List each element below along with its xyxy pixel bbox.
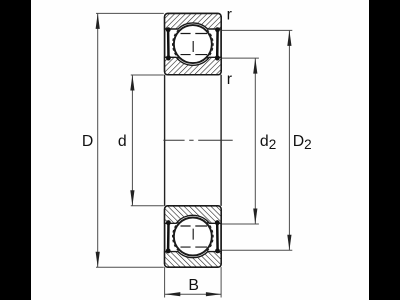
dimension d2 line [254,58,256,224]
dimension B extension left [164,267,166,297]
d2 arrow down [253,209,257,225]
dimension D extension top [96,12,164,14]
D arrow down [96,252,100,268]
dimension D2 line [288,30,290,250]
dimension D line [97,13,99,267]
bearing body bottom [165,206,222,267]
seal right (bottom) [216,223,219,251]
dimension B extension right [220,267,222,297]
ball (top) [174,25,212,63]
seal right (top) [216,30,219,58]
seal left (top) [167,30,170,58]
svg-text:d: d [118,133,127,150]
svg-text:r: r [227,71,232,88]
dimension D extension bottom [96,266,164,268]
ball centre marks (bottom) [181,226,208,247]
D2 arrow down [287,235,291,251]
dimension d extension top [131,74,164,76]
B arrow left [165,292,181,296]
right black pillar [369,0,400,300]
svg-text:B: B [188,277,199,294]
outer ring hatched (top) [165,14,222,30]
bore side face line right [220,75,222,206]
svg-text:r: r [227,7,232,24]
inner ring hatched (bottom) [165,206,222,223]
B arrow right [206,292,222,296]
bearing body top [165,14,222,75]
dimension D2 extension top [222,29,292,31]
seal left (bottom) [167,223,170,251]
d arrow down [130,190,134,206]
dimension d extension bottom [131,205,164,207]
d arrow up [130,75,134,91]
inner ring hatched (top) [165,57,222,74]
outer ring hatched (bottom) [165,252,222,268]
cage dashed arc left (top) [173,30,179,59]
bore side face line left [164,75,166,206]
dimension B line [165,293,222,295]
dimension d2 extension bottom [222,223,259,225]
dimension d2 extension top [222,57,259,59]
left black pillar [0,0,31,300]
dimension D2 extension bottom [222,249,292,251]
D2 arrow up [287,30,291,46]
ball centre marks (top) [181,34,208,55]
dimension d line [131,75,133,206]
ball (bottom) [174,218,212,256]
cage dashed arc left (bottom) [173,222,179,251]
D arrow up [96,13,100,29]
cage dashed arc right (bottom) [207,222,213,251]
cage dashed arc right (top) [207,30,213,59]
centre axis dash-dot line [163,139,232,141]
svg-text:D: D [82,133,93,150]
d2 arrow up [253,58,257,74]
